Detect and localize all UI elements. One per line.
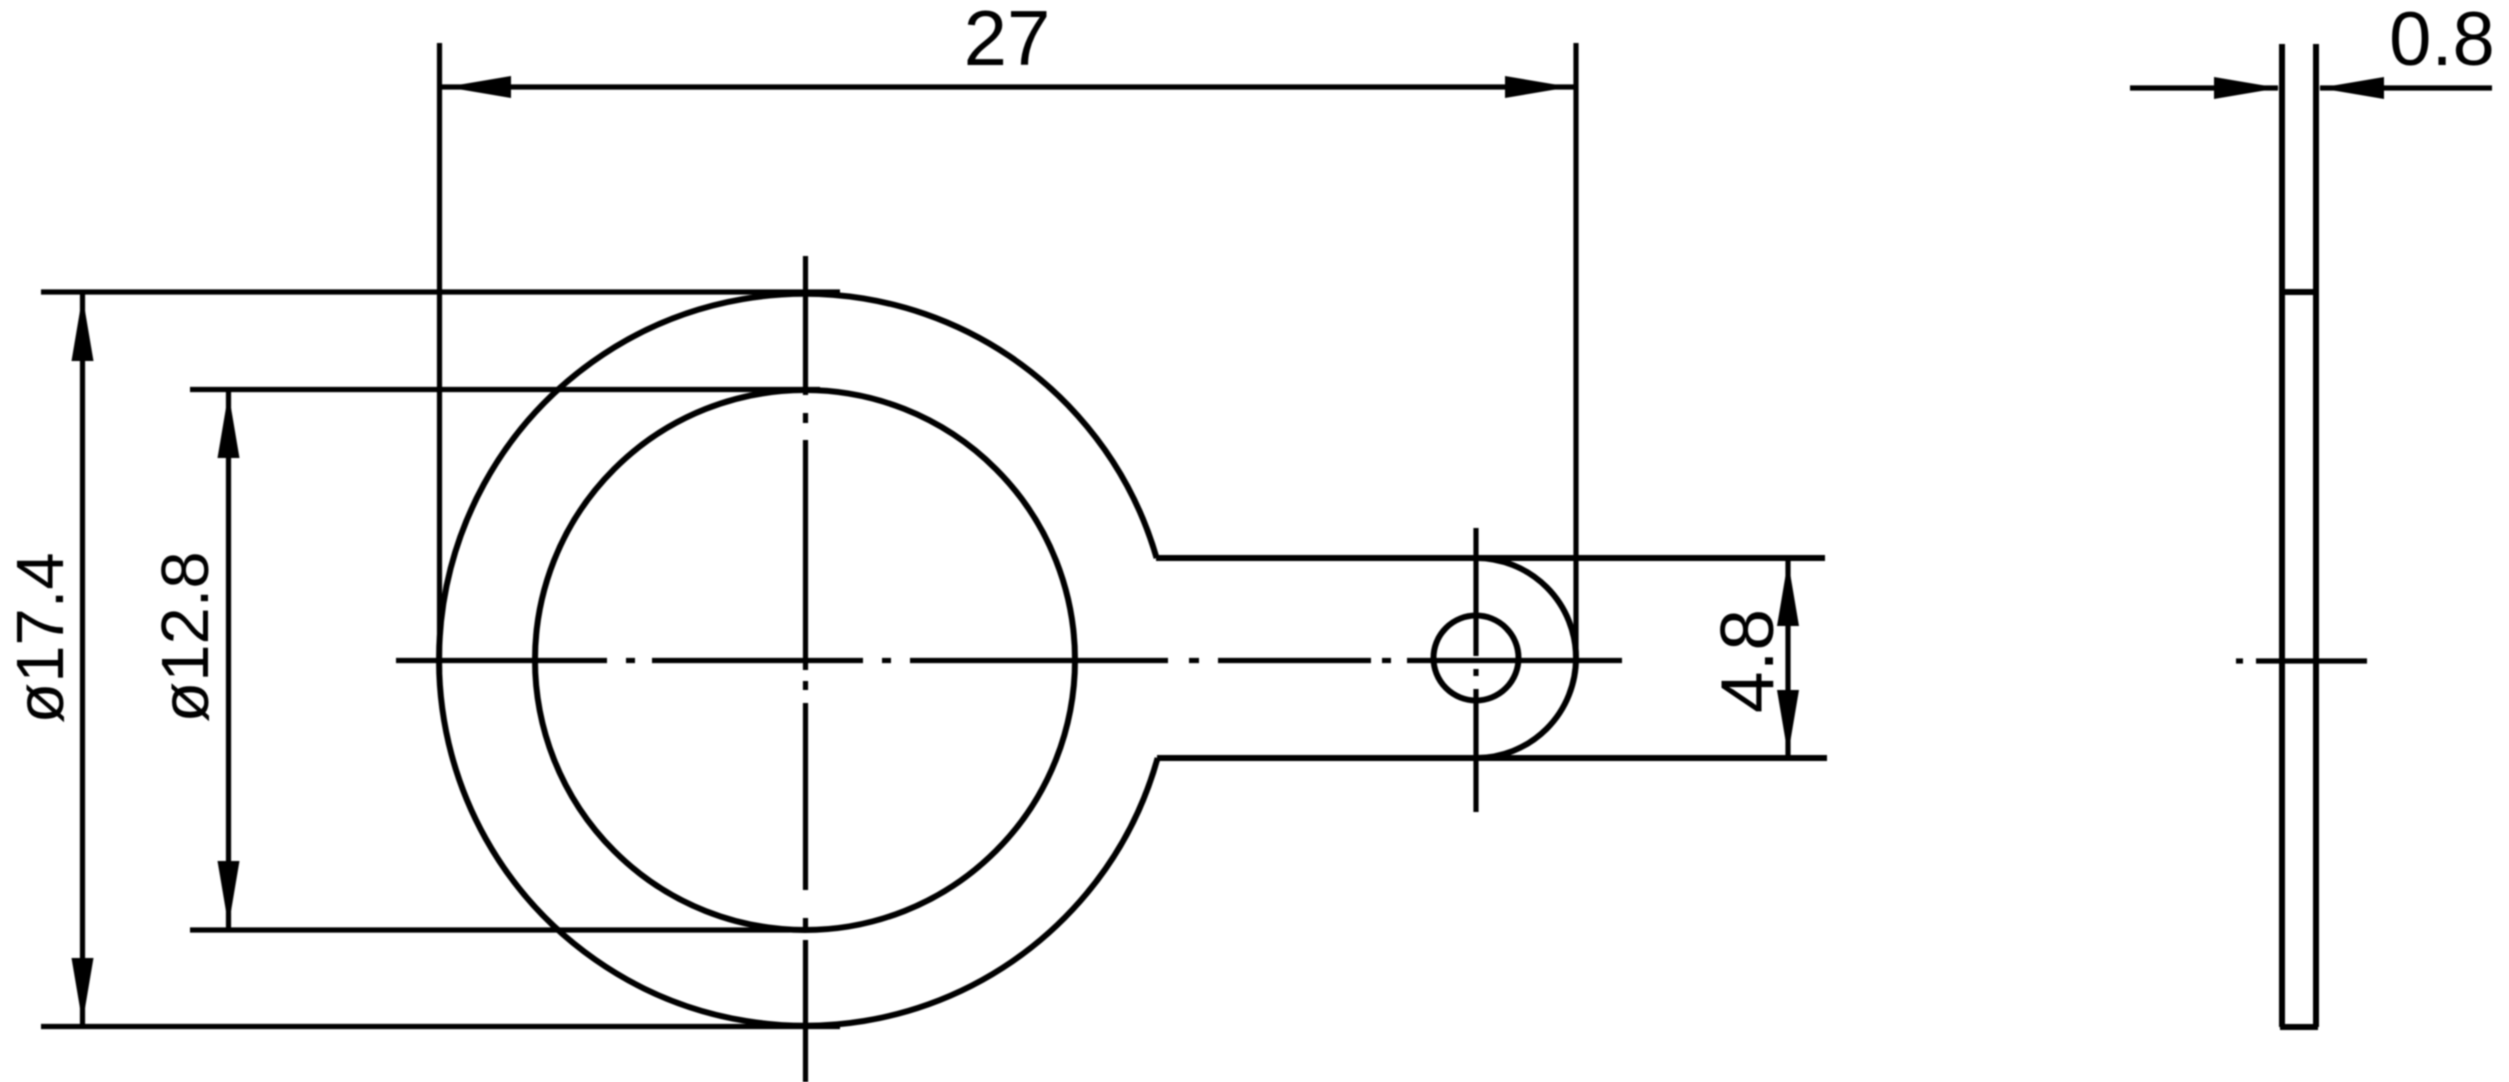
Ø12.8 bottom extension line — [190, 927, 790, 932]
27 dimension line with arrows — [442, 84, 1574, 89]
Ø17.4 dimension line with arrows — [80, 294, 85, 1025]
27 dimension: right extension line (tab right end) — [1573, 43, 1578, 658]
svg-text:ø12.8: ø12.8 — [148, 551, 223, 722]
Ø12.8 dimension line with arrows — [226, 391, 231, 928]
side view: right face line of plate (also 0.8 extension line) — [2313, 44, 2319, 1027]
vertical centerline of ring (dash-dot) — [803, 256, 808, 1082]
arrowhead Ø12.8 up — [218, 393, 240, 458]
arrowhead 27 left — [446, 76, 511, 98]
arrowhead 27 right — [1505, 76, 1570, 98]
arrowhead 0.8 left pointing right — [2214, 77, 2279, 99]
svg-text:0.8: 0.8 — [2389, 0, 2495, 82]
tab top edge line extended right as extension line for 4.8 dim — [1156, 555, 1825, 561]
svg-text:ø17.4: ø17.4 — [3, 552, 78, 723]
side view: bottom edge of plate — [2280, 1024, 2318, 1030]
arrowhead Ø17.4 up — [72, 296, 94, 361]
tab bottom edge line extended right as extension line for 4.8 dim — [1157, 755, 1827, 761]
arrowhead 4.8 up — [1777, 561, 1799, 626]
arrowhead 0.8 right pointing left — [2319, 77, 2384, 99]
svg-text:27: 27 — [964, 0, 1051, 82]
side view horizontal centerline (dash-dot) — [2236, 658, 2367, 663]
outer circle of solder lug ring (front view), Ø17.4, broken at tab junction — [439, 294, 1158, 1026]
side view: left face line of plate (also 0.8 extension line) — [2279, 44, 2285, 1027]
27 dimension: left extension line (tangent to ring left) — [437, 43, 442, 672]
svg-text:4.8: 4.8 — [1705, 609, 1789, 713]
inner circle (hole) of ring, Ø12.8 — [535, 390, 1075, 930]
side view: top edge of plate — [2280, 289, 2318, 295]
vertical centerline of tab hole (dash-dot) — [1473, 528, 1478, 812]
0.8 dimension: right dimension line — [2320, 85, 2492, 90]
Ø12.8 top extension line — [190, 387, 820, 392]
small hole in tab end — [1434, 616, 1519, 701]
arrowhead Ø12.8 down — [218, 861, 240, 926]
4.8 dimension line with arrows (tab width) — [1785, 560, 1790, 756]
arrowhead Ø17.4 down — [72, 958, 94, 1023]
arrowhead 4.8 down — [1777, 690, 1799, 755]
Ø17.4 bottom extension line — [41, 1024, 840, 1029]
Ø17.4 top extension line — [41, 289, 840, 294]
0.8 dimension: left dimension line — [2130, 85, 2278, 90]
horizontal centerline through ring and tab hole (dash-dot) — [396, 658, 1622, 663]
rounded tab end (semicircular bulge) — [1476, 558, 1576, 758]
